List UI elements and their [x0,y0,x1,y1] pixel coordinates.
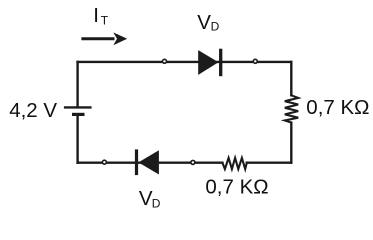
svg-text:V: V [197,11,211,34]
svg-text:D: D [211,19,220,33]
svg-text:4,2 V: 4,2 V [9,99,57,122]
svg-text:0,7 KΩ: 0,7 KΩ [306,96,369,119]
svg-text:0,7 KΩ: 0,7 KΩ [205,175,268,198]
svg-text:D: D [152,197,161,211]
svg-text:T: T [101,14,109,28]
svg-text:I: I [93,4,99,27]
